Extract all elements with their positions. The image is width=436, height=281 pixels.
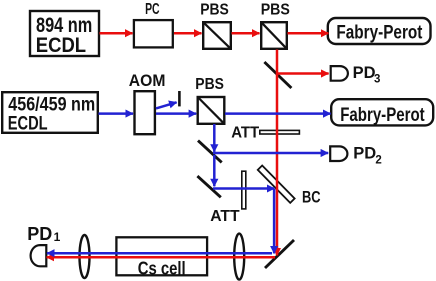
red beam: pickoff to PD3 bbox=[277, 72, 329, 75]
svg-text:1: 1 bbox=[54, 230, 61, 244]
svg-text:PBS: PBS bbox=[200, 2, 229, 19]
svg-text:PBS: PBS bbox=[195, 76, 224, 93]
PC box bbox=[134, 20, 173, 47]
bottom fold mirror bbox=[265, 240, 294, 268]
svg-text:AOM: AOM bbox=[129, 72, 166, 90]
svg-text:2: 2 bbox=[375, 155, 381, 167]
svg-text:Cs cell: Cs cell bbox=[138, 258, 186, 279]
PBS cube U3 bbox=[198, 97, 225, 124]
blue beam: AOM zero-order to beam block bbox=[156, 102, 177, 108]
svg-text:Fabry-Perot: Fabry-Perot bbox=[340, 104, 425, 126]
red beam: PBS2 down to bottom mirror bbox=[276, 50, 279, 256]
laser box 894 nm ECDL bbox=[30, 11, 99, 57]
red beam: PBS2 to Fabry-Perot 1 bbox=[288, 32, 329, 35]
svg-text:PBS: PBS bbox=[261, 2, 290, 19]
svg-text:BC: BC bbox=[302, 189, 321, 207]
lens L1 bbox=[80, 235, 90, 278]
blue beam: 456 ECDL to AOM bbox=[99, 112, 134, 115]
red beam: PC to PBS1 bbox=[174, 32, 202, 35]
beam block bbox=[178, 91, 181, 106]
svg-text:PD: PD bbox=[27, 224, 52, 244]
PBS cube U2 bbox=[261, 22, 287, 49]
laser box 456/459 nm ECDL bbox=[2, 92, 98, 134]
AOM box bbox=[135, 91, 155, 134]
blue beam: mirror B through ATT2 to BC bbox=[213, 187, 274, 190]
svg-text:PC: PC bbox=[145, 1, 160, 18]
svg-text:ECDL: ECDL bbox=[36, 34, 86, 57]
red beam: PBS1 to PBS2 bbox=[232, 32, 260, 35]
svg-text:ECDL: ECDL bbox=[8, 114, 48, 135]
red beam: 894 ECDL to PC bbox=[100, 32, 133, 35]
svg-text:ATT: ATT bbox=[210, 208, 240, 225]
attenuator ATT2 vertical bbox=[242, 171, 246, 209]
blue beam: PBS3 to Fabry-Perot 2 bbox=[225, 112, 331, 115]
Cs cell box bbox=[116, 237, 207, 278]
blue beam: down to mirror B bbox=[213, 155, 216, 186]
Fabry-Perot cavity box 2 bbox=[331, 99, 433, 126]
photodiode PD2 bbox=[330, 146, 347, 161]
svg-text:3: 3 bbox=[374, 74, 380, 86]
blue beam: mirror A to PD2 bbox=[213, 152, 328, 155]
beam combiner BC bbox=[258, 166, 295, 203]
blue beam: PBS3 down to mirror A bbox=[213, 124, 216, 152]
blue beam: AOM to PBS3 bbox=[156, 112, 196, 115]
svg-text:456/459 nm: 456/459 nm bbox=[8, 94, 95, 115]
fold mirror B bbox=[197, 176, 220, 197]
PBS cube U1 bbox=[203, 22, 231, 49]
svg-text:Fabry-Perot: Fabry-Perot bbox=[336, 21, 422, 43]
attenuator ATT1 horizontal bbox=[260, 130, 300, 134]
photodiode PD3 bbox=[331, 66, 348, 81]
pickoff mirror to PD3 bbox=[264, 62, 291, 88]
fold mirror A bbox=[198, 141, 222, 163]
svg-text:PD: PD bbox=[353, 144, 376, 162]
Fabry-Perot cavity box 1 bbox=[328, 18, 431, 44]
photodiode PD1 bbox=[31, 245, 47, 266]
svg-text:PD: PD bbox=[353, 64, 376, 82]
blue beam: BC down to bottom mirror bbox=[273, 189, 276, 253]
svg-text:ATT: ATT bbox=[231, 124, 259, 141]
red beam: bottom mirror to PD1 bbox=[47, 256, 275, 259]
lens L2 bbox=[234, 234, 244, 280]
blue beam: bottom mirror to PD1 bbox=[47, 252, 272, 255]
